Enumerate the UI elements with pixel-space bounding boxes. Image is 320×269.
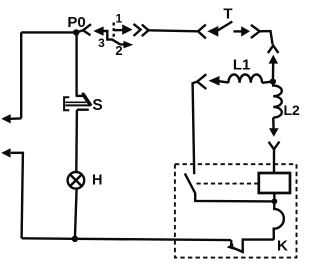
wire P0 to switch S [75, 32, 77, 96]
wire upper-left stub [10, 117, 22, 120]
svg-text:2: 2 [115, 43, 122, 58]
switch S jog [76, 95, 83, 97]
wire lamp to bottom [75, 189, 77, 239]
switch S bimetal bar lower [65, 104, 89, 106]
wire selector to T [149, 30, 199, 31]
switch S bottom bar [77, 108, 89, 110]
relay mechanical dashed link [197, 183, 259, 185]
switch T seat chevron right [251, 25, 260, 38]
node L1/L2 junction [270, 78, 276, 84]
supply arrow upper-left [1, 114, 10, 123]
switch T blade arrow [207, 26, 218, 37]
selector P0 arrow to position 3 [93, 26, 103, 35]
switch S blade [83, 94, 91, 106]
wire node to L1 [262, 82, 273, 83]
svg-text:L2: L2 [284, 102, 301, 118]
selector P0 seat chevron right 1 [134, 24, 141, 36]
wire S to lamp H [75, 110, 78, 173]
switch S tick [82, 93, 85, 96]
wire coil to node [273, 193, 276, 199]
selector P0 arrow right [114, 29, 123, 32]
selector P0 blade [103, 31, 125, 44]
svg-text:L1: L1 [233, 56, 251, 73]
wire left vertical lower [11, 153, 23, 239]
wire hop below coil [274, 201, 284, 239]
switch S bimetal bar upper [65, 101, 86, 103]
switch T arrow right [233, 30, 241, 32]
wire top horizontal to P0 [21, 31, 76, 33]
selector P0 seat chevron right 2 [142, 25, 149, 37]
svg-text:P0: P0 [67, 14, 85, 31]
relay K dashed enclosure [175, 164, 297, 257]
svg-text:H: H [92, 172, 102, 188]
wire T to right corner [260, 31, 273, 44]
switch T seat chevron left [198, 25, 206, 39]
inductor L1 [228, 75, 262, 83]
wire L1 seat down to relay box [193, 82, 198, 175]
selector P0 seat chevron left [83, 24, 91, 35]
svg-text:K: K [277, 238, 288, 255]
node below coil [272, 198, 278, 204]
switch S bracket [64, 97, 69, 110]
inductor L2 [273, 82, 282, 118]
lamp H [68, 172, 85, 189]
node bottom junction [72, 236, 78, 242]
supply arrow lower-left [1, 148, 10, 157]
connector arrow left of L1 [219, 81, 229, 82]
wire bottom horizontal [22, 238, 232, 240]
wire P0 dot to selector seat [76, 30, 83, 32]
svg-text:S: S [92, 97, 102, 114]
wire seat to relay coil [273, 149, 275, 173]
node P0 [73, 29, 79, 35]
connector seat chevron down [269, 142, 280, 150]
svg-text:T: T [223, 5, 232, 22]
wire arrow to node [272, 63, 275, 82]
svg-text:1: 1 [116, 12, 123, 26]
relay contact blade [185, 173, 275, 201]
wire left vertical upper [20, 32, 22, 118]
selector P0 dashed link to position 1 [112, 23, 114, 38]
connector arrow down [269, 128, 279, 137]
wire bottom right [232, 240, 274, 252]
connector arrow bottom [230, 240, 232, 245]
svg-text:3: 3 [98, 36, 105, 50]
connector seat chevron L1 [197, 74, 206, 89]
wire L2 to arrow [272, 118, 275, 129]
relay coil K [259, 173, 290, 193]
connector arrow up [269, 55, 279, 64]
connector seat chevron up [268, 46, 279, 53]
selector P0 arrow to position 2 [124, 41, 134, 49]
